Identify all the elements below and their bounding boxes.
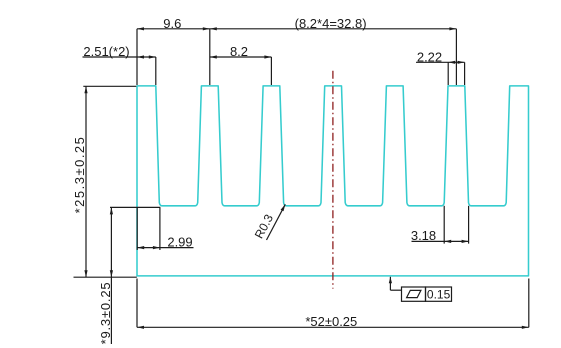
svg-text:*25.3±0.25: *25.3±0.25 <box>72 136 87 214</box>
arrowhead 2.99 right <box>153 246 160 249</box>
arrowhead 32.8 left <box>210 27 217 30</box>
arrowhead 32.8 right <box>449 27 456 30</box>
leader elbow flatness vertical <box>389 277 391 290</box>
extension line 52 right <box>528 279 530 328</box>
leader line R0.3 <box>267 204 286 240</box>
arrowhead 2.22 right <box>458 61 465 64</box>
arrowhead 8.2 right <box>264 55 271 58</box>
extension line fin6 top-left <box>447 62 449 85</box>
flatness symbol parallelogram <box>407 290 421 297</box>
arrowhead 2.51 right <box>149 55 156 58</box>
arrowhead 9.3 bottom <box>110 270 113 277</box>
arrowhead 9.6 left <box>137 27 144 30</box>
arrowhead 2.51 left <box>137 55 144 58</box>
dim line 9.6 / (8.2*4=32.8) <box>137 28 456 30</box>
svg-text:2.99: 2.99 <box>167 235 192 250</box>
extension line fin6 center <box>455 29 457 85</box>
svg-text:9.6: 9.6 <box>163 16 181 31</box>
dim line 8.2 <box>210 56 272 58</box>
extension line 52 left <box>136 279 138 328</box>
arrowhead 9.6 right <box>203 27 210 30</box>
svg-text:*9.3±0.25: *9.3±0.25 <box>98 282 113 345</box>
arrowhead 25.3 top <box>84 86 87 93</box>
extension line fin6 top-right <box>464 62 466 85</box>
arrowhead 8.2 left <box>210 55 217 58</box>
extension line 2.99 right <box>159 207 161 250</box>
dim line *25.3±0.25 <box>85 86 87 277</box>
extension line fin2 center <box>209 29 211 85</box>
arrowhead 2.22 left <box>448 61 455 64</box>
dim line 3.18 <box>412 240 469 242</box>
arrowhead 9.3 top <box>110 207 113 214</box>
extension line 3.18 left <box>443 206 445 244</box>
arrowhead flatness leader <box>389 277 392 284</box>
flatness feature control frame box (value cell) <box>426 287 452 301</box>
svg-text:2.51(*2): 2.51(*2) <box>83 44 129 59</box>
extension line 2.99 left <box>136 207 138 250</box>
flatness feature control frame box (symbol cell) <box>402 287 426 301</box>
arrowhead R0.3 leader <box>281 204 286 211</box>
heatsink extrusion profile (cyan outline, 7 fins) <box>137 86 529 276</box>
dim line 2.51(*2) <box>83 56 156 58</box>
extension line 9.3 top <box>110 206 160 208</box>
svg-text:(8.2*4=32.8): (8.2*4=32.8) <box>295 16 367 31</box>
extension line bottom left <box>74 276 137 278</box>
dim line 2.99 <box>137 247 193 249</box>
extension line body left top <box>136 29 138 85</box>
svg-text:2.22: 2.22 <box>417 49 442 64</box>
extension line 25.3 top <box>83 85 136 87</box>
extension line fin1 top-right <box>155 57 157 85</box>
arrowhead 25.3 bottom <box>84 270 87 277</box>
arrowhead 52 right <box>522 326 529 329</box>
arrowhead 2.99 left <box>137 246 144 249</box>
arrowhead 52 left <box>137 326 144 329</box>
svg-text:8.2: 8.2 <box>230 44 248 59</box>
arrowhead 3.18 left <box>444 240 451 243</box>
extension line 3.18 right <box>468 206 470 244</box>
dim line *52±0.25 <box>137 326 529 328</box>
dim line 2.22 <box>416 61 465 63</box>
extension line fin3 center <box>270 57 272 85</box>
dim line *9.3±0.25 <box>110 207 112 344</box>
arrowhead 3.18 right <box>462 240 469 243</box>
svg-text:*52±0.25: *52±0.25 <box>305 314 357 329</box>
leader elbow flatness horizontal <box>390 289 401 291</box>
centerline (red dash-dot, fin4 axis) <box>332 71 334 289</box>
svg-text:3.18: 3.18 <box>411 228 436 243</box>
svg-text:0.15: 0.15 <box>427 288 451 302</box>
